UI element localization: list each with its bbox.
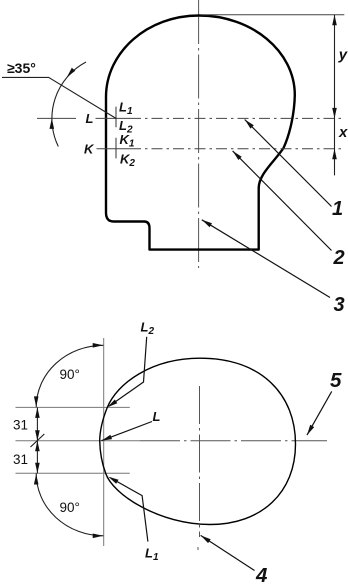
head profile outline (106, 16, 295, 250)
svg-text:90°: 90° (60, 500, 80, 515)
dimension line 31 upper (36, 407, 38, 440)
90deg arc upper (36, 345, 103, 407)
tangent vertical line (front) (103, 338, 105, 546)
svg-text:y: y (338, 47, 348, 64)
svg-text:31: 31 (13, 452, 28, 467)
angle leader line (2, 77, 116, 118)
svg-text:5: 5 (330, 369, 342, 392)
arrow up at crown (332, 15, 337, 25)
svg-text:≥35°: ≥35° (7, 60, 36, 76)
svg-text:1: 1 (332, 198, 343, 220)
middle axis dash-dot (140, 440, 327, 442)
leader to 5 (307, 391, 332, 435)
leader to L1 point (111, 478, 148, 542)
svg-text:L: L (86, 111, 94, 126)
leader to L2 point (110, 337, 147, 406)
axis line L left segment (37, 117, 76, 119)
tick at L (115, 107, 117, 128)
arrow up at K (332, 149, 337, 160)
svg-text:K: K (84, 142, 95, 157)
upper reference line (16, 406, 130, 408)
arrow down at L (332, 108, 337, 119)
leader to 2 (233, 151, 332, 251)
dimension line 31 lower (36, 441, 38, 474)
leader to 4 (201, 535, 255, 570)
vertical centerline (side view) (198, 0, 200, 268)
centerline dot below (197, 547, 199, 550)
svg-text:31: 31 (13, 418, 28, 433)
head top-view outline (100, 358, 296, 524)
lower reference line (16, 472, 130, 474)
leader to 3 (202, 220, 330, 298)
axis line L (dash-dot) (96, 117, 131, 119)
extension line from crown (201, 14, 345, 16)
svg-text:x: x (338, 124, 348, 141)
svg-text:90°: 90° (60, 367, 80, 382)
dimension line y/x (334, 15, 336, 176)
svg-text:3: 3 (334, 294, 345, 316)
svg-text:L: L (153, 409, 161, 424)
leader to L point (101, 422, 152, 441)
vertical centerline (top view) (199, 386, 201, 537)
svg-text:2: 2 (333, 247, 345, 269)
angle arc (52, 62, 86, 147)
leader to 1 (245, 120, 332, 207)
oblique tick at middle (31, 434, 45, 447)
svg-text:4: 4 (255, 564, 268, 587)
axis line K (dash-dot) (97, 148, 131, 150)
angle arc arrowhead upper (67, 68, 76, 78)
middle axis reference line (16, 440, 141, 442)
tick at K (115, 138, 117, 159)
angle arc arrowhead lower (50, 118, 55, 128)
90deg arc lower (36, 473, 103, 536)
